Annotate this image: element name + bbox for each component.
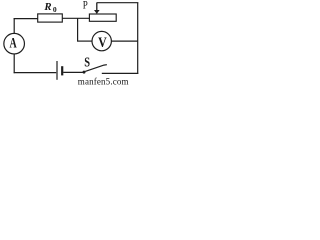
svg-text:S: S	[84, 55, 90, 70]
resistor R0 body	[38, 14, 63, 22]
wire voltmeter right lead	[111, 40, 137, 42]
wire left edge vertical (corner down to ammeter)	[13, 18, 15, 34]
wire battery to switch pivot	[63, 71, 83, 73]
rheostat wiper arrow stem	[96, 3, 98, 11]
wire R0 to rheostat	[62, 17, 89, 19]
switch blade (open)	[85, 65, 107, 72]
wire bottom left (corner to battery)	[14, 72, 57, 74]
battery long plate (positive)	[56, 61, 58, 80]
voltmeter V circle	[92, 31, 111, 50]
rheostat wiper arrowhead	[94, 10, 100, 14]
wire top-left horizontal (left edge to R0)	[14, 18, 38, 20]
wire switch to bottom-right corner	[102, 72, 139, 74]
svg-text:R: R	[43, 1, 51, 13]
svg-text:V: V	[98, 35, 107, 51]
rheostat P body	[89, 14, 116, 21]
battery short thick plate (negative)	[61, 66, 63, 75]
svg-text:0: 0	[53, 5, 57, 14]
node junction: drop wire to voltmeter branch	[77, 18, 79, 41]
wire voltmeter left lead	[77, 40, 92, 42]
svg-text:manfen5.com: manfen5.com	[78, 77, 129, 87]
wire ammeter bottom to bottom-left corner	[13, 54, 15, 73]
wire top-right horizontal (wiper stem to right edge)	[97, 2, 139, 4]
wire right edge vertical	[137, 2, 139, 74]
svg-text:P: P	[83, 0, 88, 12]
switch pivot contact dot	[83, 71, 86, 74]
ammeter A circle	[4, 33, 25, 54]
svg-text:A: A	[10, 36, 18, 52]
